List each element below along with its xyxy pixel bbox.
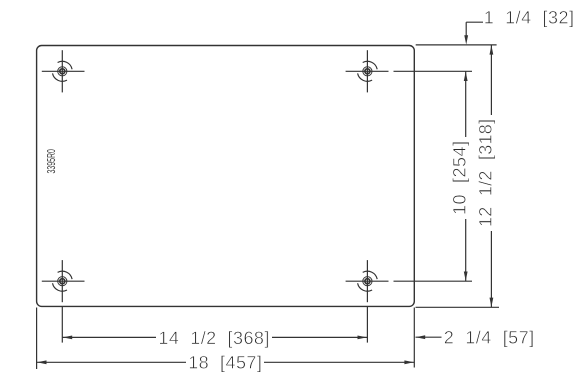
arrowhead right (14 1/2 dim right) <box>358 336 367 340</box>
dim line 18 [457] right segment <box>264 361 414 363</box>
hole H3 thread arcs <box>58 271 73 279</box>
plate outline <box>37 46 415 307</box>
dim line 12 1/2 [318] upper segment <box>490 45 492 115</box>
svg-text:14 1/2 [368]: 14 1/2 [368] <box>158 328 269 348</box>
arrowhead left (18 dim left) <box>37 360 46 364</box>
hole H3 circles <box>58 277 67 286</box>
arrowhead down at bottom edge (12 1/2 dim bottom) <box>490 298 494 307</box>
arrowhead right (18 dim right) <box>404 360 413 364</box>
arrowhead left (2 1/4 dim) <box>416 335 425 339</box>
arrowhead left (14 1/2 dim left) <box>63 336 72 340</box>
dim line 12 1/2 [318] lower segment <box>490 231 492 307</box>
hole H4 thread arcs <box>363 271 378 279</box>
hole H1 circles <box>58 67 67 76</box>
hole H2 (top-right) center mark <box>346 50 389 92</box>
hole H4 (bottom-right) center mark <box>346 260 389 302</box>
extension line: bottom-right hole center extended down <box>366 306 368 342</box>
hole H1 (top-left) center mark <box>42 50 85 92</box>
arrowhead up at top edge (12 1/2 dim top) <box>490 45 494 54</box>
hole H2 circles <box>363 67 372 76</box>
extension line: bottom-left hole center extended down <box>61 306 63 342</box>
extension line: top-right hole center extended right <box>394 70 473 72</box>
extension line: left edge extended down <box>36 308 38 370</box>
extension line: bottom-right hole center extended right <box>394 280 473 282</box>
svg-text:18 [457]: 18 [457] <box>188 353 262 373</box>
svg-text:2 1/4 [57]: 2 1/4 [57] <box>444 328 535 348</box>
extension line: right edge extended down <box>413 308 415 368</box>
arrowhead down at top edge (1 1/4 dim) <box>464 35 468 44</box>
hole H1 thread arcs <box>58 61 73 69</box>
svg-text:12 1/2 [318]: 12 1/2 [318] <box>475 119 495 227</box>
arrowhead up at hole line (10 dim top) <box>464 72 468 81</box>
dim line 14 1/2 [368] left segment <box>62 336 156 338</box>
svg-text:3395R0: 3395R0 <box>46 149 58 174</box>
dim line 14 1/2 [368] right segment <box>272 336 367 338</box>
dim leader 1 1/4 horizontal <box>466 21 483 23</box>
arrowhead down at hole line (10 dim bottom) <box>464 272 468 281</box>
hole H3 (bottom-left) center mark <box>42 260 85 302</box>
hole H2 thread arcs <box>363 61 378 69</box>
dim line 18 [457] left segment <box>37 361 186 363</box>
svg-text:1 1/4 [32]: 1 1/4 [32] <box>484 8 574 28</box>
hole H4 circles <box>363 277 372 286</box>
dim line 10 [254] upper segment <box>465 71 467 137</box>
extension line: bottom edge extended right <box>416 306 500 308</box>
dim line 2 1/4 [57] segment <box>416 336 442 338</box>
dim leader 1 1/4 vertical <box>465 22 467 36</box>
dim line 10 [254] lower segment <box>465 219 467 281</box>
extension line: top edge extended right <box>416 44 497 46</box>
svg-text:10 [254]: 10 [254] <box>450 141 470 215</box>
